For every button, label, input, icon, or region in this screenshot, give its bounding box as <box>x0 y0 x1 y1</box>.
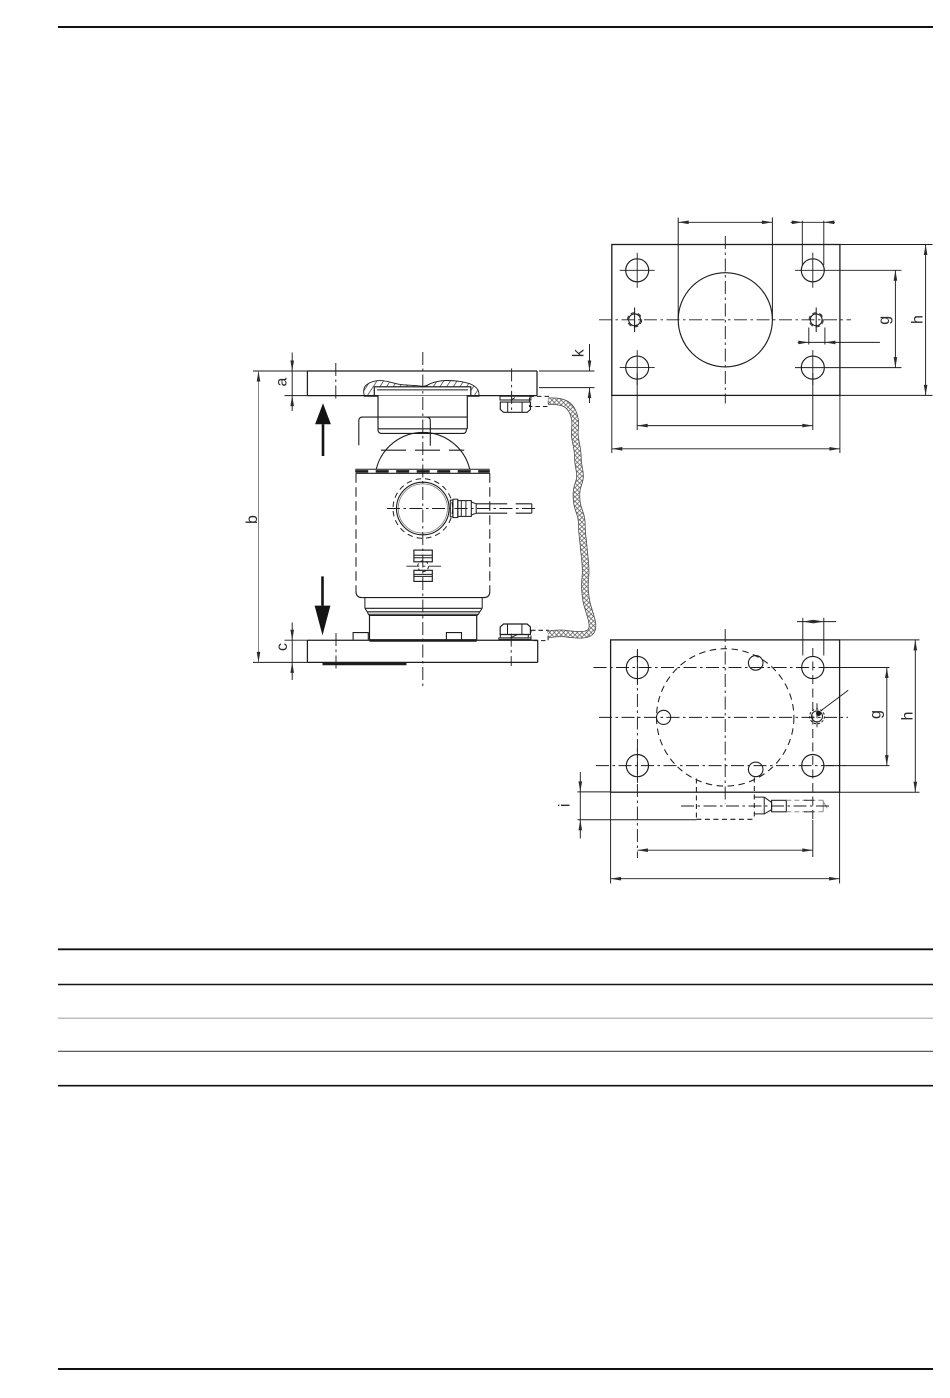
svg-text:i: i <box>557 804 574 808</box>
svg-text:c: c <box>274 643 291 651</box>
svg-text:g: g <box>876 316 893 325</box>
svg-text:h: h <box>910 315 927 324</box>
svg-text:g: g <box>867 710 884 719</box>
svg-text:h: h <box>899 712 916 721</box>
svg-text:k: k <box>571 348 588 357</box>
svg-text:a: a <box>274 378 291 387</box>
svg-text:b: b <box>244 515 261 524</box>
